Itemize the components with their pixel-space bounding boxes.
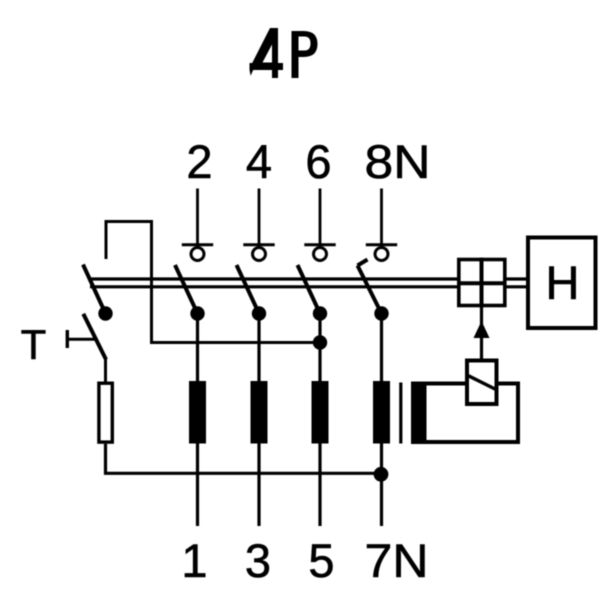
- trip bus upper line right segment: [506, 277, 527, 280]
- svg-text:1: 1: [181, 534, 207, 587]
- pole 7N conductor: [380, 314, 383, 527]
- svg-text:T: T: [21, 321, 47, 368]
- CT secondary winding box: [413, 384, 518, 443]
- contact dot test pole: [98, 306, 112, 320]
- svg-text:H: H: [546, 256, 580, 309]
- svg-text:2: 2: [186, 135, 212, 188]
- trip relay box: [467, 361, 497, 405]
- wire resistor to neutral pole: [106, 444, 381, 474]
- CT primary bar pole 1: [189, 381, 206, 444]
- switch blade pole 6-5: [298, 265, 321, 314]
- contact dot pole 5: [313, 306, 327, 320]
- trip bus lower line: [90, 285, 457, 288]
- pole 3 conductor: [257, 314, 260, 527]
- junction node on pole 5: [313, 335, 327, 349]
- wire test switch to resistor: [104, 359, 107, 383]
- actuation arrowhead: [474, 321, 490, 338]
- terminal 6 clamp bar: [304, 243, 335, 246]
- terminal 4 clamp bar: [243, 243, 274, 246]
- wire relay to trip mechanism: [480, 307, 483, 359]
- terminal 4 circle: [253, 248, 266, 261]
- crossed box vertical divider: [480, 258, 484, 308]
- switch blade 8N linkage stub: [358, 260, 368, 266]
- test resistor R: [99, 383, 112, 442]
- test button plunger bar: [66, 330, 69, 348]
- terminal 8N lead: [380, 189, 383, 246]
- terminal 6 circle: [314, 248, 327, 261]
- switch blade pole 4-3: [237, 265, 260, 314]
- CT primary bar pole 7N: [373, 381, 390, 444]
- terminal 2 circle: [191, 248, 204, 261]
- terminal 6 lead: [319, 189, 322, 246]
- terminal 8N circle: [375, 248, 388, 261]
- CT primary bar pole 5: [312, 381, 329, 444]
- svg-text:7N: 7N: [365, 534, 429, 587]
- svg-text:3: 3: [245, 534, 271, 587]
- svg-text:6: 6: [305, 135, 331, 188]
- terminal 4 lead: [258, 189, 261, 246]
- terminal 8N clamp bar: [366, 243, 397, 246]
- wire from pole L1 feed bracket to node on pole 5: [106, 222, 320, 343]
- svg-text:4: 4: [246, 135, 272, 188]
- junction node on pole 7N: [374, 467, 389, 482]
- terminal 2 clamp bar: [182, 243, 213, 246]
- switch blade pole 8N-7N: [358, 266, 382, 314]
- contact dot pole 3: [252, 306, 266, 320]
- crossed box horizontal divider: [457, 281, 507, 285]
- contact dot pole 7N: [374, 306, 388, 320]
- CT secondary winding black bar: [411, 382, 427, 445]
- switch blade pole 2-1: [175, 265, 198, 314]
- trip bus lower line right segment: [506, 285, 527, 288]
- svg-text:5: 5: [308, 534, 334, 587]
- CT primary bar pole 3: [251, 381, 268, 444]
- terminal 2 lead: [196, 189, 199, 246]
- toroid core line: [399, 383, 402, 444]
- pole 5 conductor: [318, 314, 321, 527]
- auxiliary device box H: [528, 238, 596, 329]
- trip bus upper line: [88, 277, 457, 280]
- switch blade test pole: [83, 265, 106, 314]
- pole 1 conductor: [196, 314, 199, 527]
- test button plunger stem: [66, 338, 95, 341]
- contact dot pole 1: [190, 306, 204, 320]
- title 4P: [250, 28, 318, 78]
- test switch blade: [83, 314, 106, 360]
- svg-text:8N: 8N: [365, 135, 431, 188]
- trip relay diagonal: [467, 375, 498, 390]
- trip mechanism crossed box: [459, 260, 505, 306]
